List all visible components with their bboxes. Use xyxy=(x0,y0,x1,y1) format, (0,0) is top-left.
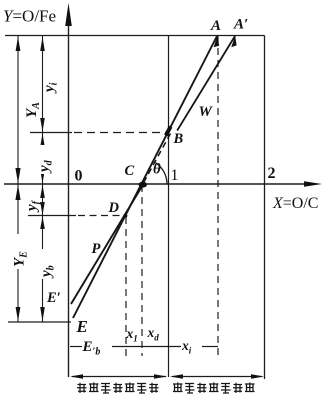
svg-text:A′: A′ xyxy=(233,17,248,33)
svg-text:E: E xyxy=(76,317,88,336)
svg-text:B: B xyxy=(173,131,184,147)
svg-text:yi: yi xyxy=(42,82,60,94)
svg-text:E′b: E′b xyxy=(82,339,101,358)
svg-text:W: W xyxy=(199,104,214,120)
svg-text:YA: YA xyxy=(24,102,42,118)
svg-text:θ: θ xyxy=(153,162,161,178)
svg-text:0: 0 xyxy=(75,168,83,185)
svg-text:E′: E′ xyxy=(46,290,61,306)
svg-text:C: C xyxy=(125,163,135,179)
svg-text:xd: xd xyxy=(147,325,160,343)
svg-text:1: 1 xyxy=(171,167,179,184)
svg-text:2: 2 xyxy=(268,165,276,182)
svg-text:A: A xyxy=(210,18,221,34)
svg-text:Y=O/Fe: Y=O/Fe xyxy=(3,7,56,26)
svg-text:yf: yf xyxy=(24,199,42,213)
svg-text:x1: x1 xyxy=(126,326,138,344)
svg-text:D: D xyxy=(108,200,120,216)
svg-text:xi: xi xyxy=(181,338,192,356)
svg-text:X=O/C: X=O/C xyxy=(272,195,318,212)
svg-text:P: P xyxy=(92,241,101,257)
